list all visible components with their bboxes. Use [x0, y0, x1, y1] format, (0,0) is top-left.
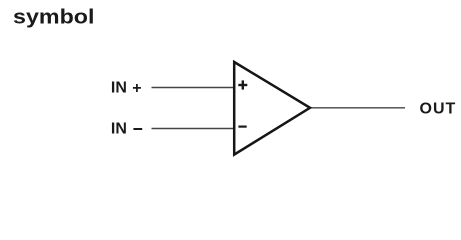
svg-text:IN: IN — [111, 120, 127, 137]
svg-text:OUT: OUT — [420, 101, 457, 118]
svg-text:+: + — [132, 80, 141, 97]
svg-text:symbol: symbol — [13, 5, 95, 28]
svg-text:IN: IN — [111, 79, 127, 96]
